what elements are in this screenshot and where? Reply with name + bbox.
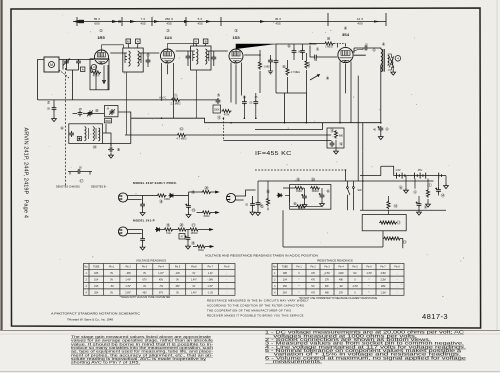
svg-text:3S4: 3S4	[342, 32, 350, 37]
svg-text:800Ω: 800Ω	[204, 215, 210, 218]
svg-text:⑪: ⑪	[174, 92, 178, 98]
svg-text:TUBE: TUBE	[93, 267, 100, 269]
svg-text:A: A	[195, 40, 197, 44]
svg-text:⑭: ⑭	[394, 203, 398, 209]
svg-text:*: *	[299, 280, 300, 282]
typed note: stage gain paragraph	[71, 334, 214, 365]
svg-text:*: *	[299, 292, 300, 294]
svg-text:B: B	[205, 40, 207, 44]
voltage readings table	[84, 264, 236, 296]
oscillator coil box	[69, 124, 103, 150]
svg-text:⑬: ⑬	[397, 219, 401, 225]
wire antenna to V1 grid	[63, 59, 94, 61]
svg-text:DENOTES B−: DENOTES B−	[91, 185, 107, 188]
svg-text:1U4: 1U4	[164, 35, 172, 40]
svg-text:4.7M: 4.7M	[366, 273, 371, 275]
svg-text:51Ω: 51Ω	[166, 232, 171, 235]
svg-text:⑧: ⑧	[117, 147, 121, 152]
svg-text:⑨: ⑨	[107, 107, 110, 111]
svg-text:②: ②	[166, 28, 170, 33]
svg-text:1 MEG: 1 MEG	[264, 66, 272, 69]
svg-text:455: 455	[166, 21, 171, 25]
filter network early	[185, 185, 218, 218]
svg-text:0V: 0V	[192, 273, 195, 275]
tube V1 1R5 converter	[95, 28, 124, 65]
svg-text:ARVIN 241P, 244P, 2419P: ARVIN 241P, 244P, 2419P	[23, 128, 29, 195]
gang dashed line	[65, 68, 67, 186]
svg-text:⑳: ⑳	[311, 176, 315, 182]
svg-text:Page 4: Page 4	[23, 200, 29, 219]
svg-text:680: 680	[339, 135, 344, 138]
svg-text:⑱: ⑱	[159, 198, 163, 204]
svg-text:12 X: 12 X	[357, 17, 363, 21]
svg-text:⑲: ⑲	[192, 207, 196, 213]
svg-text:⑬: ⑬	[192, 222, 196, 228]
svg-text:①: ①	[316, 47, 320, 52]
svg-text:⑩: ⑩	[95, 108, 99, 113]
junction dots bottom	[362, 180, 364, 182]
tube V2 1U4 IF amp	[161, 28, 194, 64]
V4 pin drops	[340, 62, 351, 123]
svg-text:2.2M: 2.2M	[380, 280, 385, 282]
svg-text:*: *	[369, 292, 370, 294]
detector network	[213, 93, 258, 121]
svg-text:1500Ω: 1500Ω	[311, 190, 318, 193]
svg-text:.05: .05	[78, 166, 82, 170]
svg-text:⑦: ⑦	[47, 100, 51, 105]
V3 pin drops	[231, 63, 242, 105]
dropping resistor R14	[387, 196, 398, 215]
svg-text:45V: 45V	[418, 169, 423, 172]
svg-text:160Ω: 160Ω	[164, 198, 170, 201]
battery pack	[360, 123, 448, 215]
svg-text:4.7M: 4.7M	[352, 286, 357, 288]
svg-text:4817-3: 4817-3	[422, 312, 448, 321]
svg-text:1.4V*: 1.4V*	[125, 286, 131, 288]
svg-text:-.5V: -.5V	[110, 286, 115, 288]
svg-text:1.5V: 1.5V	[395, 169, 400, 172]
right section: switch and B- network	[256, 181, 434, 216]
top wires V3 to V4	[317, 44, 346, 48]
svg-text:Pin 7: Pin 7	[380, 267, 386, 269]
svg-text:⑥: ⑥	[282, 64, 286, 69]
rectifier 2	[155, 228, 161, 232]
power plug P2	[118, 227, 127, 236]
volume control network	[274, 44, 330, 94]
svg-text:1 MEG: 1 MEG	[325, 46, 333, 49]
legend denotes chassis / B-	[56, 166, 107, 189]
filament bus	[131, 93, 381, 130]
svg-text:455: 455	[140, 21, 145, 25]
svg-text:48K: 48K	[325, 292, 330, 294]
svg-text:45V: 45V	[143, 292, 148, 294]
svg-text:1S5: 1S5	[94, 286, 99, 288]
svg-text:④: ④	[382, 42, 386, 47]
svg-text:1M: 1M	[339, 286, 342, 288]
svg-text:SW.: SW.	[358, 189, 363, 192]
svg-text:1.4V: 1.4V	[208, 273, 213, 275]
svg-text:Pin 2: Pin 2	[126, 267, 132, 269]
line cap to gnd	[140, 202, 145, 208]
svg-text:⑳: ⑳	[180, 222, 184, 228]
R13 box bottom right	[283, 210, 407, 248]
tube V3 1S5 det-AF	[229, 28, 243, 64]
svg-text:1U4: 1U4	[283, 280, 288, 282]
svg-text:A: A	[137, 40, 139, 44]
svg-text:⑮: ⑮	[330, 127, 334, 133]
svg-text:-1.2V: -1.2V	[208, 292, 214, 294]
svg-text:RESISTANCE MEASURED IN THE: RESISTANCE MEASURED IN THE B+ CIRCUITS M…	[207, 298, 309, 302]
svg-text:.05: .05	[46, 107, 50, 111]
svg-text:1R5: 1R5	[94, 273, 99, 275]
svg-text:800Ω: 800Ω	[198, 249, 204, 252]
selenium rectifier	[169, 194, 175, 198]
scan specks	[49, 15, 464, 299]
svg-text:⑩: ⑩	[327, 36, 331, 41]
svg-text:⑲: ⑲	[166, 222, 170, 228]
gang tuning cap C1A	[63, 59, 70, 71]
screen resistor box 680	[327, 127, 344, 154]
svg-text:⑲: ⑲	[191, 240, 195, 246]
wire plug to rectifier	[128, 196, 143, 203]
svg-text:-.5V: -.5V	[159, 286, 164, 288]
svg-text:NC: NC	[311, 286, 315, 288]
svg-text:③: ③	[234, 28, 238, 33]
svg-text:0V: 0V	[110, 273, 113, 275]
svg-text:0V: 0V	[110, 292, 113, 294]
svg-text:No.: No.	[84, 267, 88, 269]
svg-text:Pin 4: Pin 4	[158, 267, 164, 269]
svg-text:Pin 6: Pin 6	[366, 267, 372, 269]
svg-text:⑳: ⑳	[205, 185, 209, 191]
svg-text:0V: 0V	[143, 273, 146, 275]
filter cap on B+	[373, 126, 389, 140]
svg-text:0V: 0V	[143, 286, 146, 288]
stage gain dimension line	[73, 13, 386, 26]
B-minus network box	[283, 176, 331, 210]
AVC bus	[38, 92, 218, 106]
svg-text:4.7 MEG: 4.7 MEG	[291, 71, 301, 74]
svg-text:2.2 MEG: 2.2 MEG	[170, 101, 180, 105]
svg-text:100Ω: 100Ω	[296, 190, 302, 193]
typed note: numbered measurement list	[265, 330, 467, 364]
svg-text:0V: 0V	[192, 286, 195, 288]
svg-text:VOLTAGE READINGS: VOLTAGE READINGS	[136, 259, 166, 263]
svg-text:④: ④	[344, 26, 348, 31]
output transformer T3	[354, 42, 389, 72]
svg-text:Pin 8: Pin 8	[224, 267, 230, 269]
third plug fragment battery model	[226, 190, 263, 215]
svg-text:5 X: 5 X	[198, 17, 203, 21]
svg-text:THE COOPERATION OF THE MAN: THE COOPERATION OF THE MANUFACTURER OF T…	[207, 308, 291, 312]
V2 pin drops	[162, 63, 174, 118]
IFT bottom feed wires	[127, 70, 197, 135]
svg-text:⑧: ⑧	[326, 76, 330, 81]
svg-text:1800Ω: 1800Ω	[190, 232, 197, 235]
svg-text:250K: 250K	[214, 109, 220, 112]
V1 grid box with osc resistor	[90, 59, 109, 90]
svg-text:RESISTANCE READINGS: RESISTANCE READINGS	[317, 259, 352, 263]
resistor chain later model	[161, 222, 213, 239]
svg-text:⑫: ⑫	[339, 141, 343, 147]
loop antenna M	[40, 57, 69, 78]
svg-text:27K: 27K	[339, 292, 344, 294]
svg-text:*: *	[299, 286, 300, 288]
svg-text:55 X: 55 X	[94, 17, 100, 21]
IF transformer T1	[110, 39, 159, 72]
svg-text:shorting AVC to Pin 7 of 1R5.: shorting AVC to Pin 7 of 1R5.	[71, 360, 140, 365]
svg-text:Pin 4: Pin 4	[338, 267, 344, 269]
svg-text:-.08V: -.08V	[208, 280, 214, 282]
svg-text:.05: .05	[78, 107, 82, 111]
svg-text:1U4: 1U4	[94, 280, 99, 282]
svg-text:250 X: 250 X	[165, 17, 173, 21]
svg-text:*: *	[369, 286, 370, 288]
svg-text:67V: 67V	[143, 280, 148, 282]
svg-text:A PHOTOFACT STANDARD NOTATI: A PHOTOFACT STANDARD NOTATION SCHEMATIC	[51, 311, 141, 315]
B+ line with 4.7 MEG	[125, 126, 331, 141]
stage gain labels	[94, 17, 363, 25]
svg-text:IF=455 KC: IF=455 KC	[255, 151, 292, 157]
V1 pin drops	[96, 65, 108, 90]
svg-text:600: 600	[94, 21, 99, 25]
svg-text:-10V: -10V	[175, 273, 180, 275]
svg-text:1.4V*: 1.4V*	[191, 280, 197, 282]
svg-text:1.4V*: 1.4V*	[191, 292, 197, 294]
svg-text:⑭: ⑭	[441, 192, 445, 198]
svg-text:①: ①	[413, 189, 417, 194]
svg-text:NC: NC	[353, 273, 357, 275]
svg-text:Pin 1: Pin 1	[296, 267, 302, 269]
svg-text:Pin 7: Pin 7	[208, 267, 214, 269]
osc padder box	[105, 106, 119, 124]
svg-text:①: ①	[99, 28, 103, 33]
svg-text:1.4V*: 1.4V*	[125, 280, 131, 282]
svg-text:45V: 45V	[159, 280, 164, 282]
svg-text:ACCORDING TO THE CONDITION: ACCORDING TO THE CONDITION OF THE FILTER…	[207, 303, 304, 307]
svg-text:Pin 8: Pin 8	[394, 267, 400, 269]
wire antenna column down	[38, 60, 79, 101]
svg-text:*TAKEN WITH VACUUM TUBE VOLTME: *TAKEN WITH VACUUM TUBE VOLTMETER	[120, 296, 171, 299]
svg-text:⑤: ⑤	[217, 93, 221, 98]
dashed AVC vertical	[222, 118, 224, 140]
svg-text:1.1M: 1.1M	[380, 292, 385, 294]
svg-text:A.V.C.: A.V.C.	[159, 96, 167, 100]
svg-text:455: 455	[197, 21, 202, 25]
osc ground cap C8	[103, 124, 121, 158]
svg-text:1S5: 1S5	[283, 286, 288, 288]
svg-text:Pin 3: Pin 3	[324, 267, 330, 269]
svg-text:INF.: INF.	[325, 286, 329, 288]
svg-text:⑲: ⑲	[191, 189, 195, 195]
svg-text:45V: 45V	[175, 286, 180, 288]
svg-text:48K: 48K	[339, 280, 344, 282]
svg-text:Pin 1: Pin 1	[109, 267, 115, 269]
svg-text:7 X: 7 X	[141, 17, 146, 21]
svg-text:67V: 67V	[159, 292, 164, 294]
svg-text:⑲: ⑲	[296, 176, 300, 182]
svg-text:0V: 0V	[176, 292, 179, 294]
svg-text:3.3M: 3.3M	[380, 273, 385, 275]
resistance readings table	[272, 264, 404, 296]
scan bottom strip separation	[0, 330, 500, 373]
svg-text:Pin 5: Pin 5	[352, 267, 358, 269]
svg-text:TUBE: TUBE	[282, 267, 289, 269]
IF transformer T2	[176, 39, 228, 70]
cap C7 on AVC bus	[46, 100, 56, 122]
svg-text:4.7 MEG: 4.7 MEG	[176, 136, 186, 140]
svg-text:400: 400	[357, 21, 362, 25]
svg-text:2200: 2200	[338, 273, 344, 275]
svg-text:455: 455	[275, 21, 280, 25]
svg-text:Pin 3: Pin 3	[142, 267, 148, 269]
svg-text:45 X: 45 X	[275, 17, 281, 21]
osc trimmer row	[60, 107, 104, 131]
svg-text:⑥: ⑥	[60, 126, 64, 131]
svg-text:MODEL 241-P: MODEL 241-P	[133, 219, 155, 223]
svg-text:27K: 27K	[325, 280, 330, 282]
wire osc to bus	[103, 112, 131, 144]
page right edge shadow	[496, 0, 498, 330]
power plug P1	[118, 193, 127, 202]
svg-text:470K: 470K	[307, 62, 310, 68]
svg-text:4.7M: 4.7M	[324, 273, 329, 275]
B+ vertical from output transformer	[380, 72, 382, 123]
svg-text:⑯: ⑯	[399, 184, 403, 190]
svg-text:1S5: 1S5	[232, 35, 240, 40]
output grid resistor R10	[309, 36, 345, 49]
svg-text:470K: 470K	[224, 113, 230, 116]
dashed AVC feed to output grid	[357, 76, 359, 181]
svg-text:0V: 0V	[110, 280, 113, 282]
coupling cap C9 .002	[310, 46, 337, 62]
svg-text:1R5: 1R5	[97, 35, 105, 40]
cap C at IFT1 output	[146, 53, 151, 68]
svg-text:-.08V: -.08V	[125, 273, 131, 275]
svg-text:A: A	[82, 68, 84, 72]
svg-text:①: ①	[424, 204, 428, 209]
trimmer cap C2	[76, 59, 85, 72]
V3 plate to AF wire	[236, 44, 276, 49]
svg-text:⑫: ⑫	[217, 114, 221, 120]
svg-text:Pin 5: Pin 5	[175, 267, 181, 269]
svg-text:⑥: ⑥	[293, 201, 297, 206]
det load resistor V3 right	[244, 50, 273, 93]
on-off switch on volume	[347, 181, 363, 210]
svg-text:MODEL 241P EARLY PROD.: MODEL 241P EARLY PROD.	[133, 181, 177, 185]
svg-text:⑰: ⑰	[80, 178, 84, 184]
svg-text:①: ①	[260, 204, 264, 209]
plate cap C.02	[354, 44, 376, 53]
svg-text:*: *	[369, 280, 370, 282]
svg-text:2.8V*: 2.8V*	[125, 292, 131, 294]
svg-text:DENOTES CHASSIS: DENOTES CHASSIS	[56, 185, 80, 188]
svg-text:3S4: 3S4	[94, 292, 99, 294]
svg-text:①: ①	[385, 127, 389, 132]
scan left edge band	[0, 0, 3, 332]
svg-text:©Howard W. Sams & Co., Inc. 19: ©Howard W. Sams & Co., Inc. 1948	[67, 318, 113, 322]
svg-text:*DO NOT USE OHMMETER TO MEASUR: *DO NOT USE OHMMETER TO MEASURE FILAMENT…	[299, 297, 378, 300]
svg-text:VOLTAGE AND RESISTANCE READ: VOLTAGE AND RESISTANCE READINGS TAKEN IN…	[205, 254, 318, 258]
svg-text:RECEIVER MAKES IT POSSIBLE: RECEIVER MAKES IT POSSIBLE TO BRING YOU …	[207, 313, 304, 317]
electrolytics later model	[185, 230, 213, 252]
B+ resistance note	[207, 298, 309, 317]
svg-text:1.4V*: 1.4V*	[207, 286, 213, 288]
svg-text:0V: 0V	[176, 280, 179, 282]
line cap 2	[140, 237, 145, 243]
svg-text:1R5: 1R5	[283, 273, 288, 275]
svg-text:M: M	[50, 63, 53, 67]
svg-text:Pin 2: Pin 2	[310, 267, 316, 269]
svg-text:3S4: 3S4	[283, 292, 288, 294]
svg-text:Ⓜ: Ⓜ	[93, 143, 97, 149]
svg-text:measurements.: measurements.	[265, 359, 322, 364]
svg-text:10M: 10M	[381, 286, 386, 288]
svg-text:1.4V*: 1.4V*	[158, 273, 164, 275]
speaker SP	[388, 54, 401, 75]
svg-text:⑥: ⑥	[326, 189, 330, 194]
tube V4 3S4 output	[338, 26, 363, 64]
svg-text:6800: 6800	[105, 120, 111, 123]
svg-text:⑫: ⑫	[180, 126, 184, 132]
